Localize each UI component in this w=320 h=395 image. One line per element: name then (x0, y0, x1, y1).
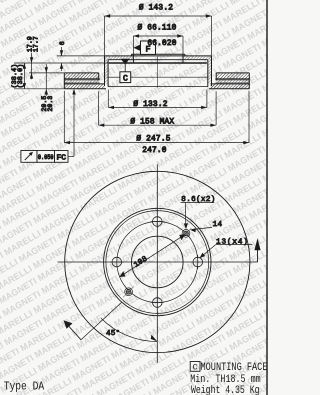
band bottom plate tops (64, 83, 104, 85)
center boss top (132, 53, 185, 55)
friction band right hatched plates (211, 73, 250, 89)
horizontal centerline (58, 261, 258, 263)
hat cavity bottom rim (108, 86, 208, 88)
vertical centerline (156, 164, 158, 363)
svg-text:Ø 158 MAX: Ø 158 MAX (130, 118, 174, 127)
center bore walls D66 (132, 54, 134, 63)
svg-text:C: C (123, 75, 128, 84)
hat inner wall left D133.2 (107, 60, 109, 87)
vent vane lines (64, 79, 100, 81)
hat plate bottom line (108, 59, 208, 61)
svg-text:MOUNTING FACE: MOUNTING FACE (201, 362, 268, 374)
bolt hole S (150, 298, 164, 308)
left extension lines (14, 56, 109, 89)
svg-text:14: 14 (213, 221, 223, 229)
small hole SW 8.6 (123, 286, 134, 297)
section axis centerline (157, 57, 159, 88)
bolt circle D108 (117, 222, 198, 303)
friction band left hatched plates (64, 73, 104, 89)
dimension 17.9/17.7 vertical (30, 53, 33, 80)
svg-text:8.6(x2): 8.6(x2) (181, 196, 215, 204)
bolt circle diagonal dimension line 108 (119, 234, 185, 277)
hat cavity inner line (108, 76, 120, 78)
dimension 20.5/20.3 vertical (45, 64, 48, 96)
datum C box bottom note (190, 362, 200, 372)
dimension D158 MAX (99, 91, 217, 127)
dimension D143.2 (105, 14, 212, 56)
45 deg arc with arrow (101, 318, 157, 341)
svg-text:20.3: 20.3 (47, 96, 54, 112)
center bore circle (132, 236, 184, 288)
bolt hole W (110, 257, 124, 267)
right rotation arrow on centerline (254, 238, 260, 262)
svg-text:45°: 45° (106, 329, 120, 338)
dimension 6 vertical (60, 47, 63, 71)
rotation direction leader arrow (64, 320, 82, 340)
svg-text:Ø 247.5: Ø 247.5 (136, 135, 170, 144)
boss step edges (131, 54, 133, 56)
datum C leader stem (124, 64, 126, 72)
band bottom faces (64, 88, 106, 90)
runout feature control frame 0.050 FC (21, 151, 68, 163)
right border line (266, 0, 268, 395)
dimension D133.2 (108, 90, 207, 110)
hat flange chamfer circle (106, 211, 209, 314)
svg-text:Ø 143.2: Ø 143.2 (139, 4, 173, 13)
svg-text:C: C (193, 363, 198, 373)
bolt hole E (193, 255, 203, 269)
dimension 38.4/38.0 vertical (23, 63, 26, 89)
hat outer wall left D143.2 (104, 56, 106, 86)
hat top face (105, 55, 212, 57)
svg-text:17.7: 17.7 (32, 36, 39, 52)
svg-text:FC: FC (57, 154, 67, 162)
band top plate bottoms (64, 78, 100, 80)
hat inner wall right (207, 60, 209, 87)
mounting pad face line (109, 62, 207, 64)
hat plate hatched left (105, 54, 134, 84)
band outer edges (63, 73, 65, 89)
datum C box (120, 72, 131, 83)
svg-text:Weight 4.35 Kg: Weight 4.35 Kg (191, 385, 260, 395)
datum F flag (133, 44, 140, 51)
small hole NE 8.6 (181, 228, 192, 239)
hat flange circle (104, 208, 211, 315)
band top faces (64, 72, 98, 74)
dimension D66.110/66.020 (133, 34, 183, 54)
FCF leader to band bottom (68, 89, 76, 157)
svg-text:66.020: 66.020 (147, 40, 176, 48)
outer rim circle (65, 171, 250, 352)
svg-text:13(x4): 13(x4) (216, 239, 249, 247)
svg-text:0.050: 0.050 (38, 154, 54, 161)
svg-text:Ø 66.110: Ø 66.110 (137, 24, 176, 33)
45 deg radial line (81, 302, 122, 340)
bolt hole N (150, 217, 164, 227)
svg-text:6: 6 (59, 41, 66, 45)
svg-text:Type DA: Type DA (4, 380, 45, 394)
hat outer wall right (211, 56, 213, 86)
dimension D247.5/247.0 (64, 91, 249, 145)
svg-text:Ø 133.2: Ø 133.2 (133, 100, 167, 109)
band inner edges at D158 (98, 73, 100, 80)
svg-text:247.0: 247.0 (142, 147, 167, 155)
svg-text:(38.0): (38.0) (17, 64, 24, 89)
datum C triangle on mounting face (121, 59, 130, 65)
hat plate hatched right (183, 54, 212, 84)
